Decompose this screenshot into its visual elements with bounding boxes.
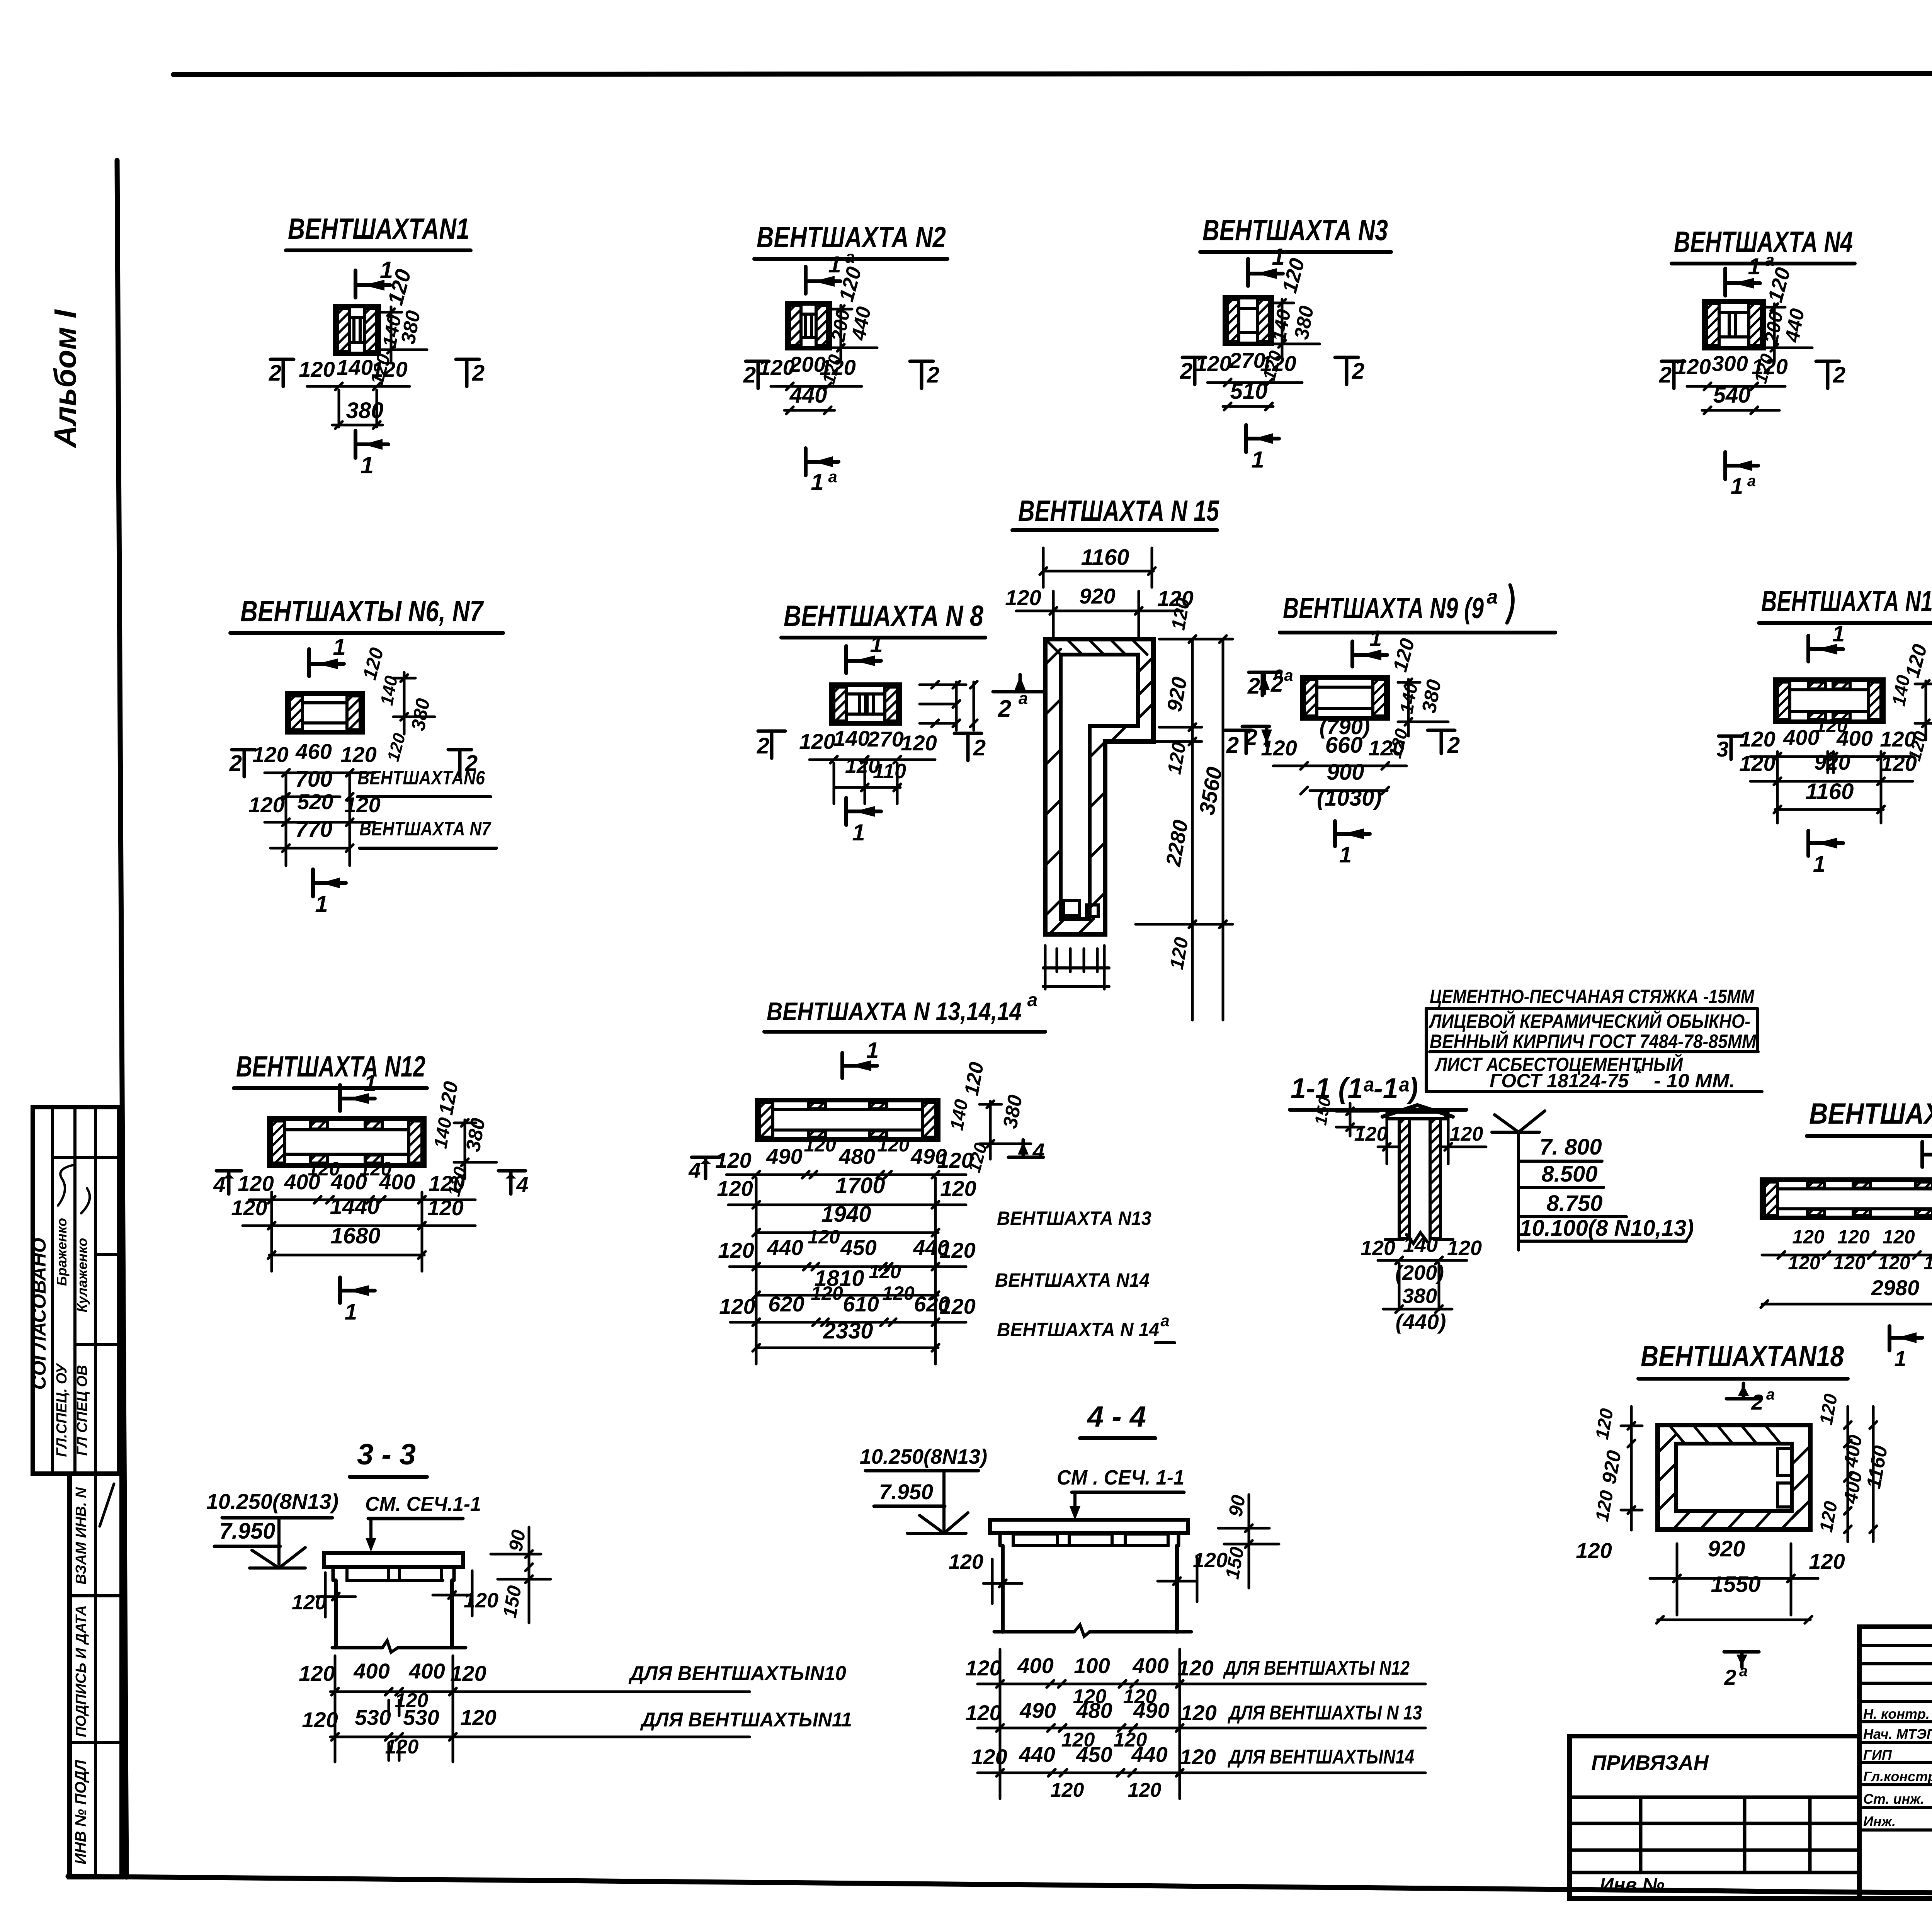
N2 dim row [759,352,862,390]
N1314 section mark 1 top [842,1038,879,1078]
N18 dim row 920 [1576,1536,1845,1615]
N8 right mini dims [920,681,977,730]
svg-text:120: 120 [869,1261,901,1282]
3-3 see section [365,1493,481,1552]
svg-text:1: 1 [1339,842,1352,867]
svg-text:ВЕНТШАХТА N3: ВЕНТШАХТА N3 [1202,214,1388,247]
svg-text:ВЕНТШАХТА N 17: ВЕНТШАХТА N 17 [1809,1097,1932,1130]
4-4 elevation 10250 [860,1445,987,1471]
svg-text:(440): (440) [1396,1310,1446,1334]
svg-text:а: а [1160,1311,1169,1330]
svg-text:120: 120 [799,729,835,753]
svg-text:ВЕНТШАХТА N 13,14,14: ВЕНТШАХТА N 13,14,14 [767,997,1022,1026]
svg-text:120: 120 [460,1705,496,1730]
svg-text:ВЕНТШАХТА N 14: ВЕНТШАХТА N 14 [997,1319,1159,1340]
svg-text:Кулаженко: Кулаженко [74,1238,90,1313]
chimney dim 150 [1311,1095,1379,1136]
svg-text:90: 90 [1225,1493,1250,1519]
svg-text:10.250(8N13): 10.250(8N13) [206,1489,338,1514]
N9 dim 900 [1301,760,1389,794]
svg-text:4: 4 [688,1158,701,1182]
svg-text:1: 1 [361,452,374,479]
title 1-1 [1290,1072,1466,1110]
svg-text:380: 380 [346,398,384,423]
chimney 1-1 walls [1385,1119,1453,1243]
svg-text:ВЕНТШАХТА N13: ВЕНТШАХТА N13 [997,1207,1151,1229]
4-4 bottom [994,1625,1191,1636]
svg-text:(200): (200) [1395,1261,1444,1284]
svg-text:450: 450 [840,1235,876,1260]
title ventshakhta N3 [1200,214,1391,252]
svg-text:520: 520 [297,789,333,814]
N2 dim 440 [784,383,835,414]
side table upper box [33,1107,119,1474]
chimney dim 440 [1396,1310,1446,1334]
N15 right dim col [1136,636,1233,1020]
svg-text:480: 480 [838,1144,875,1168]
svg-text:ДЛЯ ВЕНТШАХТЫN10: ДЛЯ ВЕНТШАХТЫN10 [628,1662,846,1685]
side table vzam inv [73,1487,89,1585]
svg-text:1: 1 [811,469,823,495]
4-4 elevation flag [907,1513,968,1533]
svg-text:120: 120 [1354,1123,1388,1145]
N6N7 mark 1 bottom [313,869,346,917]
svg-text:2: 2 [1180,359,1192,384]
N8 plan [832,685,900,723]
N10 right dims [1889,673,1932,763]
elevation 7800 [1492,1111,1602,1250]
svg-text:1550: 1550 [1711,1572,1760,1597]
title 4-4 [1080,1400,1155,1438]
N6N7 rails [286,773,350,866]
svg-text:490: 490 [1019,1698,1056,1723]
svg-text:ДЛЯ ВЕНТШАХТЫ N12: ДЛЯ ВЕНТШАХТЫ N12 [1223,1657,1410,1679]
N8 mark 2 right [954,733,986,760]
N10 mark 3 left [1716,736,1743,761]
title ventshakhta N9 [1280,585,1555,633]
N1 dim 380 [332,398,383,429]
svg-text:530: 530 [403,1705,439,1730]
N3 mark 2 right [1335,357,1364,384]
N18 right dims [1816,1392,1892,1542]
side table podpis data [73,1605,89,1737]
N3 plan [1225,297,1272,344]
svg-text:1: 1 [364,1071,376,1096]
svg-text:10.250(8N13): 10.250(8N13) [860,1445,987,1468]
svg-text:2: 2 [1751,1390,1763,1414]
svg-text:270: 270 [867,727,903,751]
svg-text:120: 120 [939,1238,975,1262]
N4 dim 120 right top [1764,265,1795,305]
N3 right dims [1259,299,1320,383]
N12 mark 4 right [498,1171,529,1197]
svg-text:120: 120 [385,1736,419,1758]
svg-text:120: 120 [1177,1656,1213,1680]
N3 mark 2 left [1180,357,1206,384]
svg-text:8.500: 8.500 [1541,1162,1597,1187]
svg-text:120: 120 [949,1550,983,1573]
4-4 elevation 7950 [874,1471,945,1529]
N10 dim row 920 [1739,750,1917,785]
svg-text:Нач. МТЭП: Нач. МТЭП [1863,1726,1932,1742]
N17 dim 2980 [1761,1276,1932,1308]
svg-text:490: 490 [1133,1698,1169,1723]
4-4 rails [1000,1649,1180,1799]
svg-text:120: 120 [292,1591,327,1614]
4-4 ladder N12 [965,1653,1425,1687]
svg-text:620: 620 [768,1292,804,1316]
3-3 slab [324,1553,463,1567]
svg-text:120: 120 [808,1226,840,1248]
svg-text:ВЕНТШАХТА N 15: ВЕНТШАХТА N 15 [1018,495,1219,527]
svg-text:120: 120 [965,1701,1001,1725]
svg-text:440: 440 [767,1235,803,1260]
svg-text:110: 110 [873,760,906,783]
N2 mark 1a bottom [806,448,838,495]
svg-text:120: 120 [427,1196,463,1220]
svg-text:120: 120 [1128,1779,1162,1801]
N3 dim row [1195,348,1302,386]
svg-text:Ст. инж.: Ст. инж. [1863,1791,1924,1807]
svg-text:1: 1 [852,820,865,845]
N1314 dim 1810 [753,1261,1150,1299]
side table lower box [70,1474,122,1877]
N12 right dims [430,1080,497,1198]
3-3 rails [335,1656,453,1762]
svg-text:120: 120 [877,1134,910,1156]
N9 mark 1 bottom [1335,821,1370,867]
svg-text:120: 120 [1788,1252,1820,1274]
N12 dim row 400 [238,1158,475,1203]
4-4 ladder 120c [1051,1779,1162,1801]
N18 dim 1550 [1656,1572,1812,1623]
title ventshakhta N4 [1672,226,1855,264]
svg-text:ГЛ.СПЕЦ. ОУ: ГЛ.СПЕЦ. ОУ [54,1362,70,1457]
svg-text:1440: 1440 [330,1194,379,1219]
4-4 dim 120 left [949,1550,1022,1604]
N4 dim 540 [1702,383,1779,414]
N6N7 dim row 460 [252,739,376,776]
N10 mark 1 bottom [1808,831,1843,877]
4-4 ladder 120b [1061,1729,1147,1751]
svg-text:2: 2 [1724,1665,1736,1689]
N1314 mark 4 up right [1009,1139,1045,1163]
svg-text:ВЕНТШАХТАN6: ВЕНТШАХТАN6 [357,767,485,789]
svg-text:300: 300 [1712,351,1748,376]
side table gl spec ov [74,1365,90,1456]
svg-text:450: 450 [1076,1742,1112,1767]
svg-text:ИНВ № ПОДЛ: ИНВ № ПОДЛ [72,1759,89,1864]
svg-text:ГИП: ГИП [1863,1747,1892,1763]
svg-text:120: 120 [1447,1236,1482,1260]
note line 1 [1426,986,1756,1009]
N4 plan [1704,301,1764,348]
svg-text:120: 120 [231,1196,267,1220]
svg-text:120: 120 [1051,1779,1084,1801]
svg-text:120: 120 [450,1661,486,1685]
N10 dim row 400 [1739,715,1916,760]
3-3 under slab [333,1567,454,1580]
svg-text:ДЛЯ ВЕНТШАХТЫN14: ДЛЯ ВЕНТШАХТЫN14 [1228,1746,1414,1768]
svg-text:ЦЕМЕНТНО-ПЕСЧАНАЯ СТЯЖКА -15ММ: ЦЕМЕНТНО-ПЕСЧАНАЯ СТЯЖКА -15ММ [1430,986,1755,1007]
4-4 ladder 120a [1073,1685,1157,1708]
N9 plan [1302,677,1388,718]
svg-text:140: 140 [833,726,869,750]
svg-text:610: 610 [843,1292,879,1316]
svg-text:1: 1 [315,891,328,917]
svg-text:660: 660 [1325,733,1363,758]
N1 plan [335,306,379,354]
svg-text:120: 120 [1005,585,1041,610]
svg-text:490: 490 [766,1144,802,1168]
svg-text:2: 2 [1659,362,1672,388]
3-3 dims 90 150 [491,1527,551,1623]
svg-text:400: 400 [408,1659,445,1683]
svg-text:1: 1 [1369,626,1382,651]
svg-text:380: 380 [1402,1284,1437,1308]
svg-text:2: 2 [1226,733,1239,758]
N4 right dims [1750,304,1812,386]
svg-text:2: 2 [472,361,485,386]
svg-text:120: 120 [1923,1252,1932,1274]
chimney dim 120s [1354,1111,1486,1164]
N8 dim row 2 [835,754,906,791]
svg-text:120: 120 [1809,1549,1845,1573]
N8 mark 2 left [757,731,785,759]
svg-text:100: 100 [1074,1653,1110,1678]
svg-text:120: 120 [719,1294,755,1318]
frame top border [173,73,1932,75]
N9 dim 120 rot top [1389,636,1419,674]
svg-text:120: 120 [371,357,407,381]
svg-text:а: а [1019,689,1028,708]
svg-text:Инж.: Инж. [1863,1813,1896,1829]
svg-text:1: 1 [1894,1346,1906,1371]
N17 plan [1762,1180,1932,1218]
svg-text:120: 120 [1752,354,1787,379]
svg-text:*: * [1634,1064,1642,1083]
N6N7 plan [287,694,362,732]
N12 mark 1 bottom [340,1277,375,1325]
svg-text:Браженко: Браженко [54,1218,70,1286]
svg-text:Инв.№: Инв.№ [1600,1874,1665,1896]
N2 plan [787,303,830,348]
titleblock middle table [1859,1627,1932,1898]
N8 mark 2a right [993,675,1043,722]
svg-text:ВЕНТШАХТАN18: ВЕНТШАХТАN18 [1641,1340,1844,1373]
svg-text:120: 120 [429,1171,464,1196]
svg-text:ВЕНТШАХТА N7: ВЕНТШАХТА N7 [359,818,492,840]
svg-text:120: 120 [820,355,855,379]
N15 bottom comb [1043,946,1109,989]
svg-text:120: 120 [965,1656,1001,1680]
svg-text:120: 120 [937,1148,973,1172]
svg-text:120: 120 [252,742,288,767]
N10 dim 1160 [1774,779,1884,813]
svg-text:4: 4 [213,1172,225,1197]
svg-text:1: 1 [1251,447,1264,473]
svg-text:120: 120 [1739,751,1775,776]
svg-text:120: 120 [238,1171,274,1196]
N6N7 dim 120 right top [359,645,388,682]
svg-text:СМ . СЕЧ. 1-1: СМ . СЕЧ. 1-1 [1057,1466,1184,1489]
svg-text:8.750: 8.750 [1546,1191,1602,1216]
N6N7 dim 770 row [270,817,497,852]
title ventshakhta N2 [754,221,947,259]
N1314 dim 1700 [717,1173,976,1208]
svg-text:4: 4 [516,1172,528,1197]
title ventshakhta N12 [234,1050,427,1088]
N15 dim 120 rot top [1167,596,1194,632]
svg-text:120: 120 [302,1708,338,1732]
svg-text:120: 120 [901,731,937,755]
N10 section mark 1 top [1808,621,1845,662]
N18 plan [1658,1425,1810,1529]
svg-text:120: 120 [1180,1745,1216,1769]
N15 dim row 920 [1005,584,1193,641]
svg-text:120: 120 [1837,1226,1870,1248]
N8 section mark 1 top [846,631,883,673]
svg-text:4: 4 [1032,1139,1044,1163]
N10 dim 120 rot top [1901,642,1931,680]
N8 dim row [799,726,937,763]
frame bottom border [68,1876,1932,1900]
3-3 elevation 7950 [214,1518,280,1564]
N15 dim 1160 [1040,545,1155,587]
3-3 legs [336,1580,452,1648]
title ventshakhta N17 [1807,1097,1932,1136]
N3 section mark 1 top [1248,244,1285,286]
svg-text:2: 2 [927,362,939,388]
N1 section mark 2 left [269,359,294,386]
N17 dim row [1762,1225,1932,1274]
svg-text:120: 120 [971,1745,1007,1769]
svg-text:120: 120 [811,1282,843,1304]
svg-text:а: а [1739,1663,1748,1680]
svg-text:а: а [1766,1386,1775,1403]
N1314 dim rowB [718,1226,975,1270]
3-3 dim 120 left [292,1573,355,1617]
side table sig slash [100,1484,114,1526]
svg-text:120: 120 [340,742,376,767]
svg-text:440: 440 [1131,1742,1167,1767]
svg-text:120: 120 [1368,736,1404,760]
svg-text:2980: 2980 [1871,1276,1920,1300]
svg-text:400: 400 [379,1170,415,1194]
svg-text:120: 120 [1180,1701,1216,1725]
frame left border [117,160,126,1877]
svg-text:ВЕНТШАХТА N4: ВЕНТШАХТА N4 [1674,226,1853,259]
svg-text:120: 120 [1739,727,1775,751]
svg-text:2: 2 [229,751,242,776]
side table sig kulazhenko [74,1188,90,1312]
svg-text:1-1 (1ᵃ-1ᵃ): 1-1 (1ᵃ-1ᵃ) [1291,1072,1418,1104]
svg-text:7. 800: 7. 800 [1539,1134,1602,1160]
side table gl spec ou [54,1362,70,1457]
svg-text:а: а [845,248,855,267]
title ventshakhta N15 [1012,495,1219,530]
4-4 legs [1003,1546,1177,1632]
elevation 10100 [1519,1216,1694,1241]
svg-text:120: 120 [715,1148,751,1172]
svg-text:90: 90 [505,1528,530,1553]
svg-text:920: 920 [1708,1536,1745,1561]
svg-text:480: 480 [1076,1698,1112,1723]
svg-text:400: 400 [353,1659,389,1683]
svg-text:120: 120 [939,1294,975,1318]
svg-text:400: 400 [1132,1653,1168,1678]
svg-text:120: 120 [1195,351,1231,376]
svg-text:400: 400 [1783,725,1819,750]
note line 4 [1434,1053,1683,1075]
svg-text:ПРИВЯЗАН: ПРИВЯЗАН [1591,1751,1709,1774]
N16 plan shape [0,0,1932,482]
N1 dim 120 right top [383,267,416,308]
chimney dim row [1361,1233,1482,1310]
N3 dim 120 right top [1278,256,1309,296]
svg-text:1680: 1680 [330,1223,380,1248]
svg-text:7.950: 7.950 [879,1480,933,1504]
N1314 dim 1940 [753,1202,1151,1236]
svg-text:ВЕННЫЙ КИРПИЧ ГОСТ 7484-78-85М: ВЕННЫЙ КИРПИЧ ГОСТ 7484-78-85ММ [1430,1030,1757,1052]
svg-text:ВЕНТШАХТА N9 (9: ВЕНТШАХТА N9 (9 [1283,592,1484,625]
svg-text:120: 120 [1260,351,1296,376]
title ventshakhta N13 14 14a [764,990,1045,1032]
svg-text:1: 1 [1272,244,1284,270]
svg-text:2: 2 [1447,733,1460,758]
svg-text:ВЗАМ ИНВ. N: ВЗАМ ИНВ. N [73,1487,89,1585]
svg-text:120: 120 [464,1589,498,1612]
4-4 see section [1057,1466,1184,1520]
svg-text:1: 1 [333,634,345,660]
title ventshakhta N8 [781,600,985,638]
title ventshakhta N1 [286,213,471,250]
svg-text:120: 120 [1880,727,1916,751]
3-3 dim 120 right [433,1571,498,1616]
N9 right dims [1384,678,1448,760]
svg-text:1160: 1160 [1081,545,1129,570]
svg-text:ВЕНТШАХТА N 8: ВЕНТШАХТА N 8 [784,600,984,633]
svg-text:СМ. СЕЧ.1-1: СМ. СЕЧ.1-1 [365,1493,481,1515]
svg-text:ВЕНТШАХТА N14: ВЕНТШАХТА N14 [995,1269,1150,1291]
N12 section mark 1 top [340,1071,376,1111]
svg-text:1: 1 [866,1038,879,1063]
svg-text:120: 120 [717,1176,753,1201]
3-3 ladder 120a [389,1689,428,1716]
svg-text:700: 700 [295,767,333,792]
note line 2 [1429,1010,1750,1032]
3-3 ladder N10 [299,1659,846,1695]
N1314 plan [757,1100,938,1139]
N1 section mark 2 right [456,359,485,386]
svg-text:2330: 2330 [823,1318,873,1344]
svg-text:440: 440 [1019,1742,1055,1767]
svg-text:120: 120 [1261,736,1297,760]
svg-text:120: 120 [1450,1123,1483,1145]
titleblock privyazan box [1570,1736,1859,1898]
svg-text:1: 1 [1813,852,1825,877]
svg-text:1700: 1700 [835,1173,885,1198]
N10 rails [1777,752,1881,823]
svg-text:1: 1 [1832,621,1845,646]
title 3-3 [350,1438,427,1477]
svg-text:1: 1 [1748,253,1760,279]
N2 dim 120 right top [835,264,866,304]
N6N7 right dims [376,672,435,764]
N9 section mark 1 top [1352,626,1387,667]
N8 mark 1 bottom [846,798,881,845]
svg-text:1: 1 [1731,474,1743,499]
